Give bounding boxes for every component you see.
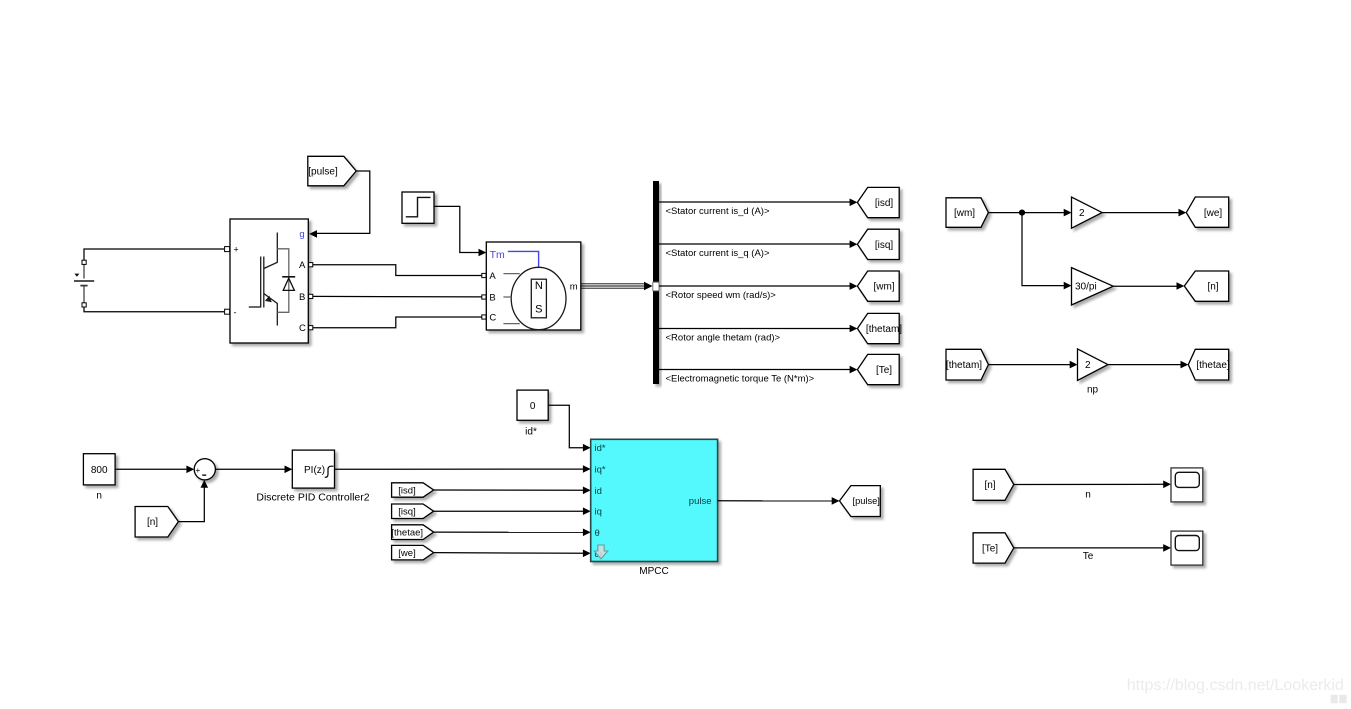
svg-text:<Rotor angle thetam (rad)>: <Rotor angle thetam (rad)>: [666, 333, 781, 344]
svg-text:2: 2: [1085, 360, 1091, 371]
svg-text:id*: id*: [525, 426, 537, 437]
svg-text:[wm]: [wm]: [954, 208, 975, 219]
from tag [we] small: [392, 545, 434, 560]
watermark block 1: [1331, 695, 1338, 703]
stub C: [503, 323, 519, 325]
wire bus out Te: [659, 369, 854, 371]
wire bridge C to motor C: [313, 317, 482, 328]
from tag [thetam]: [946, 349, 988, 380]
gain 2 we: [1072, 197, 1103, 228]
port square B: [309, 294, 313, 298]
svg-text:A: A: [299, 260, 306, 271]
svg-text:+: +: [195, 465, 200, 475]
goto tag [Te]: [857, 354, 899, 384]
wire branch to gain 30/pi: [1022, 213, 1068, 286]
wire bus out isq: [659, 243, 854, 245]
wire sum to pid: [215, 468, 288, 470]
from tag [wm] right column: [946, 198, 988, 228]
gain 30/pi: [1072, 268, 1114, 305]
svg-text:[isd]: [isd]: [398, 485, 415, 496]
from tag [isq] small: [392, 504, 434, 519]
bus selector: [653, 181, 659, 384]
port square A motor: [482, 273, 486, 277]
svg-text:B: B: [489, 292, 495, 303]
wire n to scope: [1014, 483, 1168, 485]
bus wire motor m to bus selector: [581, 282, 653, 291]
PMSM motor block: [482, 242, 581, 330]
svg-text:https://blog.csdn.net/Lookerki: https://blog.csdn.net/Lookerkid: [1127, 677, 1344, 694]
svg-text:MPCC: MPCC: [639, 566, 668, 577]
svg-text:[wm]: [wm]: [873, 282, 894, 293]
svg-text:-: -: [234, 307, 237, 317]
svg-text:[we]: [we]: [398, 548, 415, 559]
Tm internal wire: [508, 251, 539, 267]
IGBT emitter: [264, 294, 278, 326]
svg-text:B: B: [299, 292, 305, 303]
svg-text:[thetam]: [thetam]: [866, 324, 902, 335]
goto tag [isd]: [857, 187, 899, 217]
from tag [n] bottom right: [973, 469, 1014, 500]
port square C: [309, 326, 313, 330]
omega variant badge: [594, 545, 608, 559]
svg-text:iq*: iq*: [595, 465, 606, 476]
svg-text:[isq]: [isq]: [875, 240, 894, 251]
svg-text:0: 0: [530, 401, 536, 412]
goto tag [we]: [1186, 197, 1228, 227]
from tag [thetae] small: [391, 525, 433, 540]
svg-text:n: n: [96, 491, 102, 502]
wire mpcc pulse to tag: [718, 500, 836, 502]
wire bus out isd: [659, 201, 854, 203]
wire bridge B to motor B: [313, 295, 482, 298]
wire bus out wm: [659, 285, 854, 287]
watermark block 2: [1339, 695, 1346, 703]
goto tag [n]: [1184, 271, 1228, 301]
gain np 2: [1078, 349, 1108, 396]
magnet: [531, 279, 546, 318]
DC voltage source battery: [74, 260, 94, 307]
port square plus: [225, 247, 230, 252]
svg-text:[Te]: [Te]: [876, 365, 892, 376]
svg-text:S: S: [535, 304, 542, 316]
wire 0 to mpcc id*: [548, 405, 587, 448]
svg-text:[pulse]: [pulse]: [308, 167, 338, 178]
diode: [282, 276, 295, 278]
svg-text:[we]: [we]: [1204, 208, 1223, 219]
scope Te: [1171, 531, 1203, 565]
MPCC block: [591, 439, 718, 577]
svg-text:Tm: Tm: [490, 249, 505, 261]
svg-text:A: A: [489, 271, 496, 282]
port square A: [309, 263, 313, 267]
from tag [n] bottom left: [135, 507, 178, 538]
stub A: [503, 273, 519, 275]
from tag [isd] small: [392, 483, 434, 497]
svg-text:[thetae]: [thetae]: [1196, 360, 1230, 371]
svg-text:800: 800: [91, 465, 108, 476]
IGBT gate bars: [260, 257, 262, 308]
branch junction dot: [1019, 210, 1025, 216]
svg-text:[n]: [n]: [147, 517, 158, 528]
wire we to mpcc omega: [434, 552, 588, 555]
svg-text:<Rotor speed wm (rad/s)>: <Rotor speed wm (rad/s)>: [666, 290, 777, 301]
port square B motor: [482, 295, 486, 299]
svg-text:[thetae]: [thetae]: [391, 527, 423, 538]
svg-text:[n]: [n]: [984, 480, 995, 491]
svg-text:Te: Te: [1083, 551, 1094, 562]
wire 800 to sum: [115, 468, 190, 470]
svg-text:Discrete PID Controller2: Discrete PID Controller2: [256, 492, 369, 504]
svg-text:PI(z): PI(z): [304, 465, 325, 476]
svg-text:C: C: [489, 312, 496, 323]
discrete PID controller block: [256, 450, 369, 504]
svg-text:g: g: [299, 229, 304, 240]
step block: [402, 192, 434, 223]
goto tag [wm]: [857, 271, 899, 301]
wire thetae to mpcc theta: [434, 531, 588, 533]
svg-text:[pulse]: [pulse]: [852, 496, 879, 506]
svg-text:id*: id*: [595, 443, 606, 454]
wire Te to scope: [1014, 547, 1168, 549]
wire n to sum minus: [178, 484, 204, 522]
svg-text:np: np: [1087, 385, 1099, 396]
svg-text:m: m: [570, 281, 578, 292]
svg-text:[isq]: [isq]: [398, 507, 415, 518]
goto tag [thetam]: [857, 313, 902, 343]
IGBT icon collector: [264, 233, 278, 269]
svg-text:<Electromagnetic torque Te (N*: <Electromagnetic torque Te (N*m)>: [666, 374, 815, 385]
goto tag [thetae]: [1188, 349, 1230, 380]
svg-text:θ: θ: [595, 528, 600, 539]
svg-text:[Te]: [Te]: [982, 544, 998, 555]
stub B: [503, 296, 511, 298]
svg-text:C: C: [299, 323, 306, 334]
diode branch: [277, 249, 289, 312]
svg-text:iq: iq: [595, 507, 602, 518]
port square C motor: [482, 315, 486, 319]
wire gain2 to we: [1102, 212, 1183, 214]
wire bus out thetam: [659, 328, 854, 330]
wire wm to gain2 with branch: [988, 212, 1068, 214]
constant 0: [517, 390, 548, 437]
wire pulse to g port: [313, 171, 370, 233]
svg-text:<Stator current is_q (A)>: <Stator current is_q (A)>: [666, 248, 770, 259]
wire step to Tm: [434, 206, 482, 252]
scope n: [1171, 468, 1203, 502]
svg-text:+: +: [234, 245, 239, 255]
wire battery minus to bridge: [84, 307, 224, 312]
goto tag [pulse] bottom: [840, 486, 881, 517]
svg-text:30/pi: 30/pi: [1075, 282, 1097, 293]
svg-text:N: N: [535, 280, 543, 292]
svg-text:[thetam]: [thetam]: [946, 360, 982, 371]
svg-text:[n]: [n]: [1207, 282, 1218, 293]
sum block: [194, 459, 215, 480]
svg-text:2: 2: [1079, 208, 1085, 219]
wire battery plus to bridge: [84, 249, 224, 260]
universal bridge inverter block: [225, 219, 313, 343]
from tag [Te] bottom right: [973, 533, 1014, 563]
rotor circle: [511, 267, 566, 329]
constant 800: [83, 454, 115, 502]
wire isq to mpcc iq: [434, 510, 588, 512]
wire gain 30/pi to n: [1113, 285, 1181, 287]
svg-text:id: id: [595, 486, 602, 497]
wire bridge A to motor A: [313, 265, 482, 276]
svg-text:[isd]: [isd]: [875, 198, 894, 209]
wire pid to mpcc iq*: [335, 468, 588, 470]
wire isd to mpcc id: [434, 489, 588, 491]
IGBT gate lead: [249, 306, 261, 308]
goto tag [isq]: [857, 229, 899, 259]
wire thetam to gain np: [988, 364, 1074, 366]
from tag [pulse] top: [308, 156, 356, 186]
wire gain np to thetae: [1108, 364, 1185, 366]
svg-text:pulse: pulse: [689, 496, 712, 507]
port square minus: [225, 309, 230, 314]
svg-text:<Stator current is_d (A)>: <Stator current is_d (A)>: [666, 206, 770, 217]
svg-text:n: n: [1085, 490, 1091, 501]
